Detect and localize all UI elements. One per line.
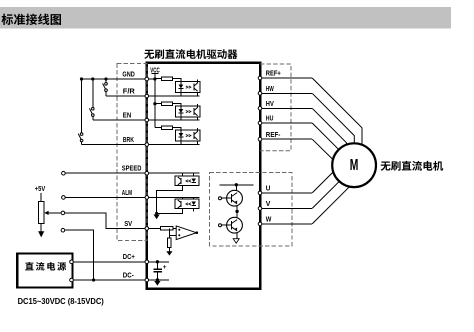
svg-text:W: W (266, 215, 272, 224)
svg-text:ALM: ALM (122, 188, 132, 197)
svg-text:DC-: DC- (123, 270, 135, 279)
svg-text:DC+: DC+ (123, 252, 135, 261)
svg-text:+: + (163, 264, 167, 271)
svg-text:SV: SV (124, 219, 132, 228)
svg-text:BRK: BRK (123, 135, 135, 144)
svg-text:HU: HU (266, 114, 274, 123)
svg-text:EN: EN (123, 110, 131, 119)
svg-text:U: U (266, 184, 271, 193)
svg-text:HV: HV (266, 99, 274, 108)
svg-text:DC15~30VDC (8-15VDC): DC15~30VDC (8-15VDC) (18, 297, 104, 306)
svg-text:REF+: REF+ (266, 69, 281, 78)
svg-text:VCC: VCC (150, 65, 160, 74)
svg-text:V: V (266, 199, 271, 208)
svg-text:REF-: REF- (266, 130, 281, 139)
svg-text:+5V: +5V (35, 184, 46, 193)
svg-text:M: M (350, 157, 359, 174)
svg-text:HW: HW (266, 84, 274, 93)
svg-text:GND: GND (122, 69, 134, 78)
svg-text:SPEED: SPEED (122, 164, 142, 173)
svg-text:F/R: F/R (123, 86, 136, 95)
